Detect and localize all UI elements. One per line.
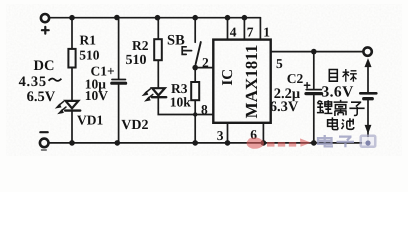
wire SB node to pin 2	[195, 67, 213, 69]
capacitor C2	[304, 83, 321, 94]
terminal output	[363, 47, 371, 55]
label + polarity	[42, 27, 49, 34]
wire node to bottom rail	[194, 115, 196, 143]
IC U1 MAX1811 box	[213, 40, 270, 123]
wire pin 5 to battery	[271, 51, 364, 53]
wire C1 column top	[118, 18, 120, 79]
terminal - input	[40, 139, 49, 148]
svg-text:510: 510	[126, 53, 147, 68]
switch SB stub	[194, 18, 196, 43]
wire VD2 to R3 node	[158, 97, 195, 114]
svg-text:VD1: VD1	[77, 113, 103, 128]
wire C1 to bottom rail	[118, 85, 120, 143]
watermark text 电子	[318, 135, 354, 147]
wire VD1 to bottom rail	[71, 111, 73, 143]
battery line with down arrow	[367, 100, 369, 126]
svg-text:VD2: VD2	[121, 118, 148, 133]
battery line with up arrow	[367, 62, 369, 93]
capacitor C1	[112, 80, 126, 84]
svg-text:MAX1811: MAX1811	[242, 45, 261, 119]
label - polarity	[40, 131, 47, 133]
capacitor C2 column	[313, 52, 315, 89]
svg-text:5: 5	[276, 56, 283, 71]
wire R1 column top	[71, 18, 73, 49]
svg-text:3: 3	[217, 128, 224, 143]
resistor R3	[191, 82, 199, 100]
svg-text:10k: 10k	[170, 95, 192, 110]
svg-text:6.5V: 6.5V	[27, 89, 56, 105]
wire bottom rail	[49, 142, 368, 144]
svg-text:2: 2	[202, 55, 209, 70]
resistor R1	[68, 49, 75, 68]
svg-text:IC: IC	[220, 69, 236, 86]
svg-text:4.35: 4.35	[19, 74, 47, 90]
svg-text:510: 510	[79, 47, 100, 62]
wire R1 to VD1	[71, 68, 73, 101]
svg-text:C2: C2	[287, 71, 304, 86]
node dot R3 pin8	[193, 112, 197, 116]
pin 3 stub	[227, 123, 229, 143]
node dots bottom rail	[69, 140, 316, 146]
terminal + input	[41, 14, 49, 22]
node dots top rail	[69, 15, 247, 21]
node dot pin5 C2	[311, 49, 317, 55]
svg-text:6.3V: 6.3V	[270, 99, 299, 115]
watermark red dashes	[267, 142, 275, 147]
pin 7 stub	[243, 18, 245, 40]
LED VD2	[142, 88, 166, 101]
label battery chinese 电池	[328, 117, 354, 129]
watermark red blob	[247, 137, 311, 148]
wire top rail	[50, 17, 261, 19]
wire SB node down to R3	[194, 68, 196, 82]
node dot SB pin2	[192, 65, 198, 71]
label target chinese 目标	[329, 69, 357, 82]
wire R2 column top	[157, 18, 159, 40]
svg-text:3.6V: 3.6V	[322, 84, 355, 101]
svg-text:4: 4	[230, 24, 237, 39]
switch SB actuator	[182, 47, 191, 55]
label battery chinese 锂离子	[317, 100, 365, 116]
watermark red arrow	[300, 138, 311, 146]
pin 6 stub	[262, 123, 264, 143]
battery BT plates	[360, 92, 376, 95]
svg-text:R2: R2	[132, 38, 149, 53]
svg-text:10V: 10V	[85, 88, 109, 103]
pin 4 stub	[227, 18, 229, 40]
wire R3 to node	[194, 100, 196, 114]
switch SB blade	[196, 42, 201, 64]
svg-text:DC: DC	[34, 58, 55, 74]
wire C2 to bottom rail	[313, 95, 315, 142]
svg-text:R1: R1	[80, 32, 97, 47]
label DC input voltage	[19, 58, 62, 105]
LED VD1	[56, 101, 81, 114]
watermark icon	[360, 135, 377, 149]
svg-text:1: 1	[263, 24, 270, 39]
resistor R2	[154, 39, 162, 60]
svg-text:7: 7	[247, 24, 254, 39]
svg-text:SB: SB	[167, 33, 185, 49]
wire node to pin 8	[195, 114, 213, 116]
svg-text:8: 8	[201, 102, 208, 117]
pin 1 stub	[259, 18, 261, 40]
wire R2 to VD2	[157, 60, 159, 87]
